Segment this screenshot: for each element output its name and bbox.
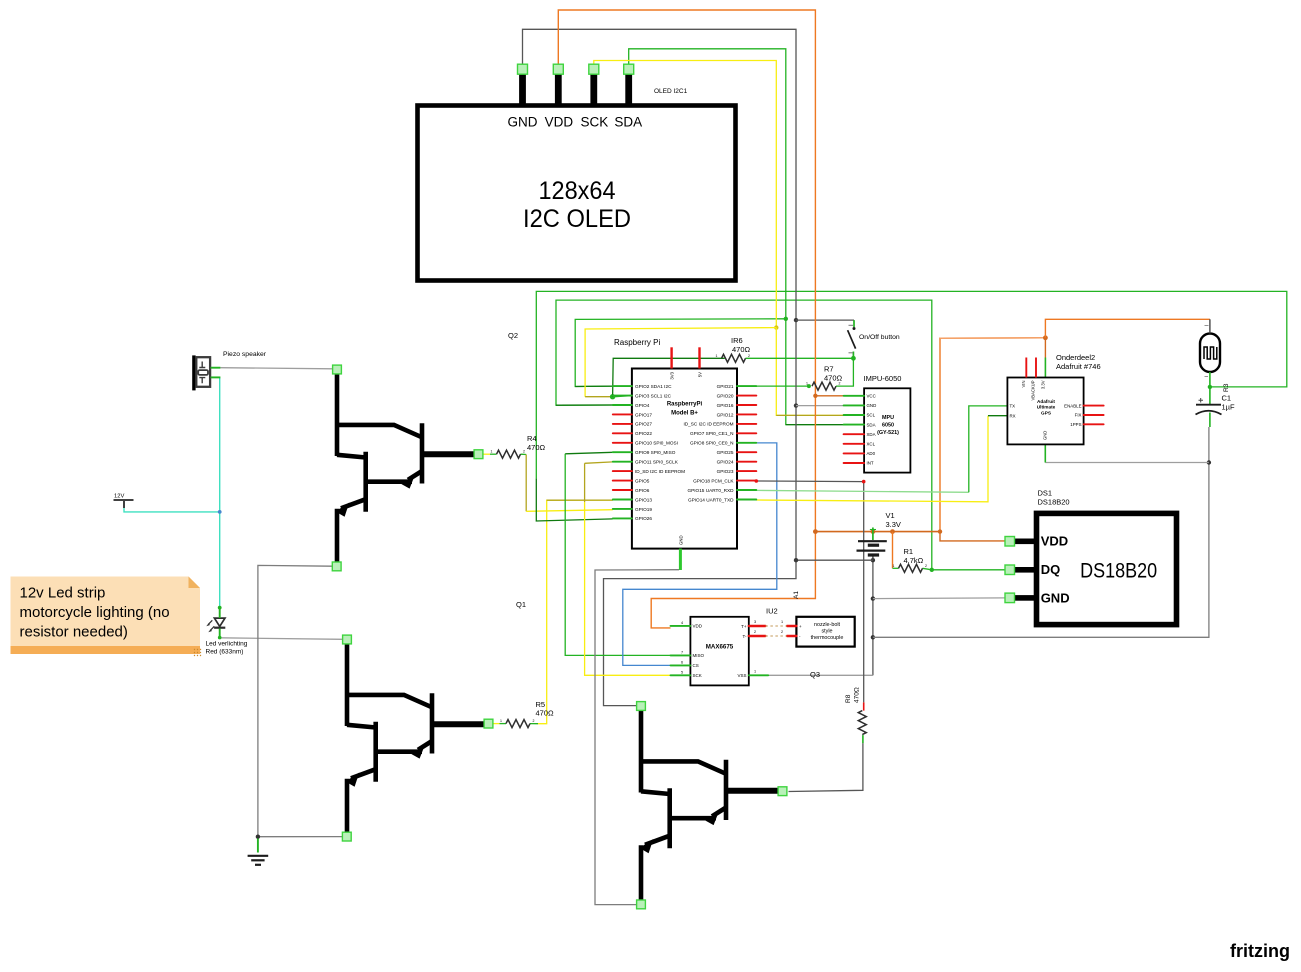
RPi pin GND (679, 549, 682, 570)
wire SCL down to MPU SCL (776, 328, 843, 416)
MAX6675 pin VDD (671, 625, 691, 627)
R8 bottom green lead (862, 735, 864, 743)
Q3 base pad (778, 787, 787, 796)
On/Off button S1 (853, 320, 855, 327)
wire GPIO0 dark segment (575, 385, 613, 387)
svg-text:GPIO26: GPIO26 (635, 516, 652, 521)
wire GPIO4 to DQ node (556, 300, 932, 570)
svg-text:RX: RX (1010, 413, 1016, 418)
R3 bottom lead (1209, 372, 1211, 387)
wire GPIO4 dark segment (556, 404, 613, 406)
svg-text:thermocouple: thermocouple (811, 635, 844, 641)
MAX6675 pin MISO (671, 654, 691, 656)
wire GPS 3.3V pin stub (1044, 358, 1046, 378)
wire OLED SCK down right (594, 61, 777, 328)
wire GPIO8 CE0 blue to MAX6675 CS (623, 443, 777, 666)
svg-text:6: 6 (681, 660, 683, 664)
resistor R8 470 (858, 711, 866, 735)
svg-text:7: 7 (681, 650, 683, 654)
MAX6675 pin CS (671, 664, 691, 666)
piezo pin 1 (211, 367, 221, 369)
MAX6675 IU2 box (690, 617, 748, 686)
wire yellow to RPi GPIO19 (526, 510, 613, 512)
svg-text:VIN: VIN (1021, 381, 1026, 388)
resistor R6 470 (722, 354, 746, 362)
wire R7 right to button (836, 358, 853, 386)
svg-text:DQ: DQ (1041, 562, 1061, 577)
junction button bottom (851, 356, 856, 361)
MAX6675 pin SCK (671, 674, 691, 676)
svg-text:GPIO12: GPIO12 (717, 412, 734, 417)
battery V1 3.3V (872, 528, 874, 541)
wire rail up to GPS 3.3V node (940, 338, 1045, 532)
svg-text:DS18B20: DS18B20 (1038, 498, 1070, 507)
thermocouple pin + (787, 625, 796, 627)
junction MPU VCC (813, 394, 817, 398)
svg-text:3.3V: 3.3V (1040, 380, 1045, 389)
resistor R4 470 (497, 450, 521, 458)
DS18B20 pin VDD (1008, 539, 1035, 545)
svg-text:XDA: XDA (867, 432, 876, 437)
RPi right pin GPIO21 (737, 385, 756, 387)
wire GPIO18 down to R8 (756, 481, 863, 702)
junction gray MPU GND node (794, 403, 798, 407)
MPU pin SCL (844, 414, 865, 416)
wire SCL to GPIO3 column (585, 328, 776, 397)
svg-text:GPIO15 UART0_RXD: GPIO15 UART0_RXD (687, 488, 734, 493)
wire gray to MPU GND (796, 405, 844, 407)
wire GPS GND pin stub (1044, 444, 1046, 462)
RPi left pin GPIO13 (613, 499, 632, 501)
wire Q2 base pad lead (483, 453, 490, 455)
MPU pin AD0 (844, 452, 865, 454)
wire R8 to Q3 base (789, 743, 863, 791)
RPi right pin GPIO16 (737, 404, 756, 406)
svg-text:CS: CS (693, 663, 699, 668)
svg-text:ENABLE: ENABLE (1064, 403, 1081, 408)
svg-text:INT: INT (867, 461, 874, 466)
wire MISO down to MAX6675 (565, 454, 670, 656)
wire MPU SDA dark segment (786, 424, 844, 426)
svg-text:ID_SD I2C ID EEPROM: ID_SD I2C ID EEPROM (635, 469, 685, 474)
junction DQ node (930, 568, 934, 572)
wire piezo pin1 to Q2 collector (220, 368, 332, 369)
svg-text:GPIO6: GPIO6 (635, 488, 650, 493)
wire SCLK down olive (584, 463, 586, 502)
wire Q3 emitter to RPi GND pin (595, 570, 679, 905)
svg-text:GPIO18 PCM_CLK: GPIO18 PCM_CLK (693, 478, 734, 483)
sticky note (11, 577, 201, 655)
red endpoint GPIO18 (755, 479, 759, 483)
wire R5 right lead (530, 723, 538, 725)
transistor Q3 (Darlington pair) (640, 707, 780, 903)
wire to DS18B20 GND (873, 597, 1006, 600)
svg-text:GPIO13: GPIO13 (635, 497, 652, 502)
DS18B20 pin pad VDD (1005, 537, 1015, 547)
OLED pin at x=558.3 (555, 69, 562, 105)
wire GPIO26 to photoresistor R3 bottom (536, 291, 1287, 478)
svg-text:Adafruit #746: Adafruit #746 (1056, 362, 1101, 371)
thermocouple box (796, 617, 854, 647)
svg-text:SCK: SCK (693, 673, 702, 678)
RPi right pin GPIO18 PCM_CLK (737, 480, 756, 482)
wire GPS TX segment (969, 406, 1008, 492)
RPi left pin GPIO9 SPI0_MISO (613, 451, 632, 453)
svg-text:VCC: VCC (867, 394, 876, 399)
wire SDA to RPi GPIO0 (575, 319, 786, 387)
wire GPIO13 olive segment (547, 499, 613, 501)
junction ground node (256, 835, 260, 839)
RPi right pin GPIO24 (737, 461, 756, 463)
svg-text:SDA: SDA (867, 422, 876, 427)
wire R5 left lead (500, 723, 507, 725)
svg-text:DS18B20: DS18B20 (1080, 559, 1157, 583)
wire R5 up to RPi GPIO13 (538, 500, 613, 724)
svg-text:1: 1 (893, 564, 895, 568)
svg-text:I2C OLED: I2C OLED (523, 205, 631, 233)
wire GPIO21 to R7 (756, 385, 809, 387)
MPU pin XCL (844, 443, 865, 445)
Q1 collector pad (343, 635, 352, 644)
svg-text:Q2: Q2 (508, 331, 518, 340)
svg-text:GPIO8 SPI0_CE0_N: GPIO8 SPI0_CE0_N (690, 441, 734, 446)
LED cathode stub (219, 629, 221, 638)
svg-text:+: + (799, 624, 802, 629)
RPi left pin GPIO2 SDA1 I2C (613, 385, 632, 387)
svg-text:resistor needed): resistor needed) (20, 624, 128, 641)
svg-text:R3: R3 (1223, 383, 1230, 392)
svg-text:GPIO17: GPIO17 (635, 412, 652, 417)
svg-text:470Ω: 470Ω (536, 709, 555, 718)
junction battery plus (871, 529, 876, 534)
svg-text:1: 1 (754, 669, 756, 673)
svg-text:4: 4 (681, 621, 683, 625)
Q3 collector pad (637, 702, 646, 711)
RPi right pin GPIO23 (737, 470, 756, 472)
wire R4 down olive segment (525, 455, 527, 512)
piezo pin 2 (211, 376, 221, 378)
junction SCL node (774, 325, 778, 329)
ratsnest dashed link T+ (765, 625, 787, 627)
wire R6 to button bottom (746, 357, 854, 359)
wire MPU SCL olive segment (776, 414, 843, 416)
Q1 base pad (484, 719, 493, 728)
DS18B20 pin pad GND (1005, 593, 1015, 603)
svg-text:R4: R4 (527, 434, 537, 443)
wire orange to MPU VCC (815, 395, 843, 397)
GPS right pin 1PPS (1084, 423, 1104, 425)
MPU-6050 module box (864, 388, 910, 472)
junction C1 branch (871, 635, 875, 639)
junction LED cathode (218, 636, 222, 640)
MAX6675 pin VSS stub (749, 674, 768, 676)
DS18B20 pin DQ (1008, 567, 1035, 573)
svg-text:IMPU-6050: IMPU-6050 (864, 374, 902, 383)
wire GPS node down (1044, 338, 1046, 358)
wire GPS node to photoresistor top (1045, 319, 1210, 338)
wire R1 right lead (923, 568, 932, 570)
GPS module box (Adafruit Ultimate GPS) (1007, 378, 1083, 445)
junction gray net at battery link (794, 558, 798, 562)
svg-text:2: 2 (523, 450, 525, 454)
wire 12V supply to junction (124, 507, 220, 512)
svg-text:VBACKUP: VBACKUP (1031, 380, 1036, 400)
wire GPS RX segment (988, 415, 1007, 417)
svg-text:Adafruit: Adafruit (1037, 399, 1055, 404)
junction R7 left (807, 384, 811, 388)
svg-text:2: 2 (748, 354, 750, 358)
junction gray button node (794, 318, 798, 322)
wire gray net to battery minus (796, 559, 873, 561)
wire light orange to GPS (940, 337, 1045, 339)
RPi right pin GPIO7 SPI0_CE1_N (737, 432, 756, 434)
svg-text:ID_SC I2C ID EEPROM: ID_SC I2C ID EEPROM (683, 422, 733, 427)
MPU pin INT (844, 462, 865, 464)
svg-text:470Ω: 470Ω (732, 345, 751, 354)
svg-text:motorcycle lighting (no: motorcycle lighting (no (20, 604, 170, 621)
wire GPIO14 TXD to GPS RX (756, 416, 988, 502)
svg-text:(GY-521): (GY-521) (877, 430, 899, 436)
svg-text:Red (633nm): Red (633nm) (206, 649, 244, 656)
junction SDA node (784, 317, 788, 321)
wire GPIO26 left and up (dark) (536, 478, 613, 521)
svg-text:GPIO4: GPIO4 (635, 403, 650, 408)
GPS right pin FIX (1084, 414, 1104, 416)
wire OLED GND long gray run to Q3 collector (523, 29, 797, 705)
OLED pin at x=593.8 (590, 69, 597, 105)
wire R4 right lead (521, 453, 527, 455)
wire gray to button top (796, 319, 854, 321)
wire DQ node to DS18B20 DQ (932, 569, 1006, 571)
piezo speaker (192, 355, 210, 390)
svg-text:VDD: VDD (693, 624, 703, 629)
wire OLED VDD orange run to MAX6675 VDD (558, 10, 815, 628)
wire battery minus down (872, 560, 874, 675)
svg-text:GPIO7 SPI0_CE1_N: GPIO7 SPI0_CE1_N (690, 431, 734, 436)
thermocouple pin - (787, 635, 796, 637)
MAX6675 pin T- stub (749, 635, 766, 637)
svg-text:5V: 5V (697, 372, 702, 377)
wire ground rail to MAX6675 VSS (768, 674, 873, 676)
resistor R7 470 (812, 382, 836, 390)
svg-text:XCL: XCL (867, 442, 876, 447)
wire rail down to DS18B20 VDD (940, 532, 1006, 541)
MPU pin XDA (844, 433, 865, 435)
Q2 collector pad (333, 365, 342, 374)
wire GPIO15 RXD light segment (756, 490, 969, 492)
RPi right pin GPIO20 (737, 395, 756, 397)
junction LED anode (218, 606, 222, 610)
svg-text:IU2: IU2 (766, 607, 778, 616)
junction GPS 3.3V node (1043, 335, 1048, 340)
svg-text:Led verlichting: Led verlichting (206, 641, 248, 648)
svg-text:A1: A1 (793, 591, 800, 599)
junction rail right corner (938, 529, 942, 533)
svg-text:GPIO10 SPI0_MOSI: GPIO10 SPI0_MOSI (635, 441, 678, 446)
ground symbol (257, 839, 259, 853)
Q3 emitter pad (637, 900, 646, 909)
svg-text:MAX6675: MAX6675 (706, 643, 734, 650)
RPi right pin ID_SC I2C ID EEPROM (737, 423, 756, 425)
junction battery minus (871, 558, 875, 562)
svg-text:nozzle-bolt: nozzle-bolt (814, 622, 841, 628)
svg-text:1: 1 (716, 354, 718, 358)
RPi pin 3V3 (670, 347, 672, 368)
svg-text:470Ω: 470Ω (854, 687, 861, 703)
svg-text:Ultimate: Ultimate (1037, 405, 1056, 410)
RPi right pin GPIO12 (737, 413, 756, 415)
transistor Q2 (Darlington pair) (336, 371, 476, 567)
Q1 emitter pad (342, 832, 351, 841)
RPi right pin GPIO15 UART0_RXD (737, 489, 756, 491)
capacitor C1 1uF (1209, 387, 1211, 404)
svg-text:MISO: MISO (693, 653, 705, 658)
wire ground run to C1 bottom (873, 427, 1209, 637)
svg-text:C1: C1 (1222, 394, 1232, 403)
svg-text:GPIO5: GPIO5 (635, 478, 650, 483)
svg-text:1: 1 (781, 620, 783, 624)
svg-text:GPIO11 SPI0_SCLK: GPIO11 SPI0_SCLK (635, 460, 679, 465)
DS18B20 sensor box (1037, 513, 1177, 624)
junction 3.3V rail left (813, 529, 818, 534)
svg-text:Raspberry Pi: Raspberry Pi (614, 338, 660, 347)
RPi right pin GPIO25 (737, 451, 756, 453)
svg-text:GPIO9 SPI0_MISO: GPIO9 SPI0_MISO (635, 450, 676, 455)
OLED pin pad (589, 64, 599, 74)
svg-text:1: 1 (806, 382, 808, 386)
svg-text:Q1: Q1 (516, 600, 526, 609)
svg-text:2: 2 (781, 630, 783, 634)
svg-text:GPIO24: GPIO24 (717, 460, 734, 465)
RPi left pin GPIO3 SCL1 I2C (613, 395, 632, 397)
svg-text:Onderdeel2: Onderdeel2 (1056, 353, 1095, 362)
svg-text:SCK: SCK (581, 115, 609, 130)
svg-text:GPIO23: GPIO23 (717, 469, 734, 474)
svg-text:On/Off button: On/Off button (859, 334, 900, 341)
wire GPIO3 node up to R6 (613, 358, 725, 396)
svg-text:1: 1 (491, 450, 493, 454)
svg-text:GPS: GPS (1041, 410, 1051, 415)
svg-text:GPIO22: GPIO22 (635, 431, 652, 436)
resistor R5 470 (506, 720, 530, 728)
svg-text:2: 2 (925, 564, 927, 568)
svg-text:1µF: 1µF (1222, 403, 1235, 412)
red endpoint R8 corner (862, 480, 866, 484)
RPi right pin GPIO8 SPI0_CE0_N (737, 442, 756, 444)
svg-text:GPIO25: GPIO25 (717, 450, 734, 455)
svg-text:T-: T- (743, 634, 748, 639)
svg-text:5: 5 (681, 670, 683, 674)
OLED pin pad (624, 64, 634, 74)
OLED pin pad (518, 64, 528, 74)
wire OLED SDA down right (629, 49, 786, 319)
R3 top lead (1209, 319, 1211, 333)
svg-text:SDA: SDA (614, 115, 642, 130)
svg-text:VSS: VSS (737, 673, 746, 678)
svg-text:GPIO27: GPIO27 (635, 422, 652, 427)
ratsnest dashed link T- (765, 635, 787, 637)
svg-text:3: 3 (754, 620, 756, 624)
RPi left pin GPIO26 (613, 517, 632, 519)
svg-text:MPU: MPU (882, 415, 894, 421)
svg-text:FIX: FIX (1075, 413, 1082, 418)
MPU pin VCC (844, 395, 865, 397)
svg-text:GND: GND (1043, 431, 1048, 440)
RPi pin 5V (698, 347, 700, 368)
RPi left pin GPIO6 (613, 489, 632, 491)
junction 12V node (blue) (218, 510, 222, 514)
svg-text:GND: GND (1041, 590, 1070, 605)
svg-text:3.3V: 3.3V (886, 520, 901, 529)
svg-text:GPIO20: GPIO20 (717, 393, 734, 398)
svg-text:R1: R1 (904, 547, 914, 556)
Q2 emitter pad (332, 562, 341, 571)
wire GPIO11 SCLK olive segment (585, 462, 613, 463)
svg-text:2: 2 (533, 719, 535, 723)
RPi left pin GPIO22 (613, 432, 632, 434)
svg-text:fritzing: fritzing (1230, 941, 1290, 961)
RPi left pin GPIO19 (613, 508, 632, 510)
wire GPIO3 stub (613, 396, 632, 397)
DS18B20 pin pad DQ (1005, 565, 1015, 575)
note resize handle dots (194, 649, 201, 656)
svg-text:1: 1 (500, 719, 502, 723)
MPU pin GND (844, 404, 865, 406)
R8 top red lead (863, 702, 865, 710)
photoresistor R3 (1200, 334, 1220, 373)
wire rail down to R1 (892, 532, 894, 569)
junction DS GND branch (871, 596, 875, 600)
svg-text:VDD: VDD (1041, 533, 1068, 548)
GPS pin VIN (1025, 358, 1027, 378)
svg-text:GPIO3 SCL1 I2C: GPIO3 SCL1 I2C (635, 393, 672, 398)
junction GPIO3 SCL node (610, 394, 615, 399)
resistor R1 4.7k (899, 564, 923, 572)
MPU pin SDA (844, 424, 865, 426)
svg-text:GPIO16: GPIO16 (717, 403, 734, 408)
svg-text:GPIO2 SDA1 I2C: GPIO2 SDA1 I2C (635, 384, 672, 389)
svg-text:T+: T+ (741, 624, 747, 629)
OLED pin at x=522.5 (519, 69, 526, 105)
svg-text:GPIO14 UART0_TXD: GPIO14 UART0_TXD (688, 497, 734, 502)
svg-text:128x64: 128x64 (539, 177, 616, 205)
svg-text:GND: GND (867, 403, 877, 408)
svg-text:2: 2 (754, 630, 756, 634)
RPi left pin ID_SD I2C ID EEPROM (613, 470, 632, 472)
RPi left pin GPIO4 (613, 404, 632, 406)
GPS right pin ENABLE (1084, 405, 1104, 407)
RPi left pin GPIO17 (613, 413, 632, 415)
svg-text:GND: GND (678, 535, 683, 545)
svg-text:OLED I2C1: OLED I2C1 (654, 88, 688, 95)
wire piezo pin2 down to LED anode (219, 378, 221, 608)
DS18B20 pin GND (1008, 595, 1035, 601)
wire to GPS GND (1045, 462, 1209, 464)
OLED pin pad (553, 64, 563, 74)
svg-text:style: style (821, 629, 832, 635)
Q2 base pad (474, 450, 483, 459)
wire Q1 base pad lead (493, 723, 500, 725)
svg-text:GPIO19: GPIO19 (635, 507, 652, 512)
wire SCLK yellow to MAX6675 SCK (585, 502, 671, 675)
wire LED cathode to Q1 collector (220, 638, 343, 640)
LED D1 (red 633nm) (214, 618, 225, 628)
svg-text:470Ω: 470Ω (824, 374, 843, 383)
wire SCL olive to GPIO3 dot (585, 396, 613, 398)
wire ground rail to Q1 emitter (258, 836, 343, 838)
RPi left pin GPIO5 (613, 480, 632, 482)
RPi right pin GPIO14 UART0_TXD (737, 499, 756, 501)
